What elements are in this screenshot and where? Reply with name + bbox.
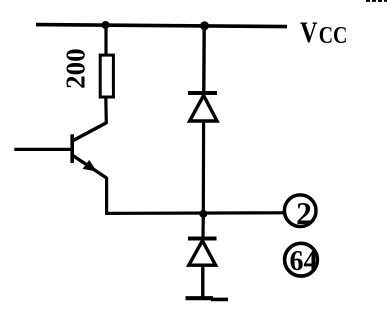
transistor Q1 collector diagonal xyxy=(72,123,107,142)
node junction dot bottom xyxy=(199,210,207,218)
wire bottom horizontal xyxy=(105,211,285,215)
diode D1 cathode bar xyxy=(188,91,217,95)
diode D2 triangle xyxy=(189,241,216,266)
wire D2 to ground xyxy=(201,265,204,298)
wire resistor bottom lead xyxy=(104,97,108,124)
diode D1 triangle xyxy=(190,95,217,121)
wire emitter vertical xyxy=(105,177,108,214)
transistor Q1 base bar xyxy=(70,134,74,163)
wire between D1 and junction xyxy=(202,121,206,214)
wire resistor top lead xyxy=(104,25,107,55)
transistor Q1 emitter diagonal xyxy=(73,156,107,179)
wire base lead xyxy=(14,148,72,151)
svg-text:2: 2 xyxy=(296,196,312,231)
node junction dot left xyxy=(102,21,110,29)
terminal circle pin 2 xyxy=(284,195,316,227)
node junction dot right xyxy=(200,21,209,30)
scan noise top edge xyxy=(366,0,387,2)
wire diode branch from rail xyxy=(202,26,206,92)
svg-text:64: 64 xyxy=(290,246,318,277)
svg-text:VCC: VCC xyxy=(300,16,347,49)
label VCC xyxy=(300,16,347,49)
diode D2 cathode bar xyxy=(188,237,217,241)
VCC rail wire xyxy=(36,25,287,27)
terminal circle pin 64 xyxy=(285,243,318,276)
transistor Q1 emitter arrow xyxy=(83,160,97,172)
resistor R 200 body xyxy=(100,55,113,97)
ground bar xyxy=(186,296,214,300)
wire junction to D2 xyxy=(201,214,205,238)
svg-text:200: 200 xyxy=(61,48,91,89)
ground smudge xyxy=(211,298,228,302)
